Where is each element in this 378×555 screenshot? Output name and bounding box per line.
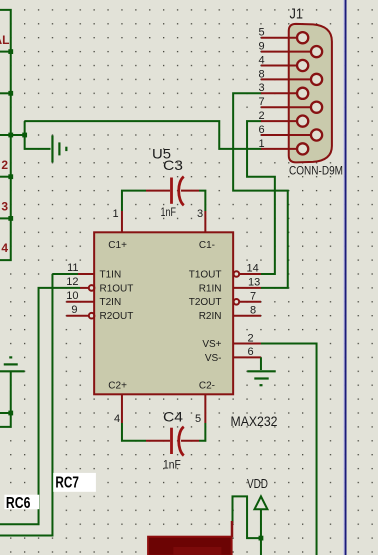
svg-text:1nF: 1nF [161, 205, 177, 219]
svg-text:R1OUT: R1OUT [100, 283, 134, 294]
svg-text:T2IN: T2IN [100, 297, 122, 308]
svg-text:4: 4 [1, 241, 8, 255]
svg-text:C2+: C2+ [108, 380, 127, 391]
svg-text:7: 7 [258, 96, 264, 108]
svg-text:4: 4 [258, 54, 264, 66]
U5 pin names right [189, 240, 222, 391]
svg-text:4: 4 [114, 413, 120, 425]
svg-text:3: 3 [1, 200, 8, 214]
svg-text:CONN-D9M: CONN-D9M [289, 165, 343, 177]
svg-text:5: 5 [258, 27, 264, 39]
J1 pin stubs [261, 38, 311, 149]
U5 pin numbers left [66, 262, 78, 316]
wire: VS- down to ground [260, 357, 262, 370]
svg-text:AL: AL [0, 33, 10, 47]
svg-text:C1+: C1+ [108, 240, 127, 251]
junction on VDD stem [259, 536, 264, 541]
svg-text:10: 10 [66, 290, 78, 302]
svg-text:R2IN: R2IN [199, 311, 222, 322]
svg-text:3: 3 [258, 82, 264, 94]
svg-text:C2-: C2- [199, 380, 215, 391]
svg-text:VDD: VDD [247, 477, 268, 491]
sheet border blue line [343, 0, 345, 555]
dark red display body [148, 537, 232, 555]
J1 pin numbers [258, 27, 264, 150]
ground GND2 (below VS-) [247, 371, 275, 385]
svg-text:12: 12 [66, 276, 78, 288]
VDD stem [260, 509, 262, 555]
svg-text:1: 1 [113, 208, 119, 220]
pin 11 stub [78, 273, 94, 275]
capacitor C3 wiring [122, 191, 146, 211]
wire: DB9 pin2 to T1OUT [247, 121, 275, 274]
U5 top pin stubs (1,3) [122, 211, 205, 232]
svg-text:RC7: RC7 [55, 475, 79, 492]
svg-text:6: 6 [248, 346, 254, 358]
U5 bottom pin stubs (4,5) [122, 394, 205, 423]
svg-text:VS+: VS+ [202, 339, 221, 350]
wire: long net from V2 to DB9 pin 1 [25, 121, 262, 149]
svg-text:2: 2 [258, 110, 264, 122]
svg-text:T1IN: T1IN [100, 269, 122, 280]
display pin (red) into dark box [231, 521, 234, 537]
capacitor C4 wiring [122, 423, 146, 441]
pin 7 bubble [234, 299, 240, 305]
svg-text:VS-: VS- [205, 353, 222, 364]
connector J1 body [289, 24, 332, 163]
wire: DB9 pin3 to R1IN [233, 93, 288, 288]
svg-text:C4: C4 [163, 409, 183, 425]
wire: left bus vertical V1 [0, 10, 25, 260]
wire label RC6 [4, 495, 39, 510]
svg-text:J1: J1 [290, 6, 304, 23]
svg-text:R2OUT: R2OUT [100, 311, 134, 322]
svg-text:R1IN: R1IN [199, 283, 222, 294]
svg-text:RC6: RC6 [6, 495, 31, 512]
ground GND1 (rotated, pointing right) [52, 135, 66, 162]
svg-text:3: 3 [197, 208, 203, 220]
power symbol VDD [254, 496, 267, 509]
svg-text:13: 13 [248, 277, 260, 289]
J1 pin holes [297, 32, 322, 154]
svg-text:2: 2 [1, 158, 8, 172]
pin 12 bubble [89, 285, 95, 291]
capacitor C4 plates [170, 428, 173, 454]
pin 7 stub [239, 301, 261, 303]
pin 6 stub VS- [233, 356, 261, 358]
wire: RC7 riser (x=52.45) [0, 274, 52, 536]
svg-text:C1-: C1- [199, 240, 215, 251]
U5 left pin stubs [66, 274, 94, 316]
U5 right pin stubs [233, 274, 261, 357]
IC U5 body [94, 232, 233, 394]
svg-text:2: 2 [248, 332, 254, 344]
wire: display pin to VDD rail [233, 496, 261, 538]
wire label RC7 [53, 473, 96, 492]
pin 14 stub [239, 273, 261, 275]
svg-text:MAX232: MAX232 [231, 414, 278, 429]
svg-text:8: 8 [250, 304, 256, 316]
junction on GND3 stem [8, 411, 13, 416]
pin 8 stub [233, 315, 261, 317]
svg-text:1: 1 [258, 138, 264, 150]
display inner window [173, 547, 221, 555]
U5 pin names left [100, 240, 134, 391]
svg-text:9: 9 [258, 41, 264, 53]
svg-text:C3: C3 [163, 157, 183, 173]
svg-text:T2OUT: T2OUT [189, 297, 222, 308]
svg-text:6: 6 [258, 124, 264, 136]
U5 pin numbers right [113, 208, 261, 425]
svg-text:8: 8 [258, 68, 264, 80]
svg-text:T1OUT: T1OUT [189, 269, 222, 280]
svg-text:14: 14 [247, 263, 259, 275]
svg-text:5: 5 [195, 413, 201, 425]
pin 9 stub [66, 315, 89, 317]
wire: GND3 stem down with branches [0, 371, 11, 427]
capacitor C3 plates [170, 178, 173, 204]
wire: V2 short vertical with ground branch [25, 121, 51, 149]
wire: R1OUT to RC6 riser [0, 288, 80, 524]
ground GND3 (left, pointing up) [0, 357, 25, 371]
svg-text:7: 7 [250, 290, 256, 302]
svg-text:11: 11 [67, 262, 78, 274]
svg-text:9: 9 [71, 304, 77, 316]
pin 12 stub [80, 287, 89, 289]
pin 14 bubble [234, 271, 240, 277]
pin 13 stub [233, 287, 261, 289]
pin 2 stub VS+ [233, 343, 261, 345]
junction dots on left bus [8, 49, 27, 221]
pin 9 bubble [89, 313, 95, 319]
wire: VS+ to right rail [261, 344, 317, 555]
pin 10 stub [66, 301, 94, 303]
wire: T1IN from RC7 riser [52, 273, 80, 275]
svg-text:1nF: 1nF [163, 458, 181, 472]
